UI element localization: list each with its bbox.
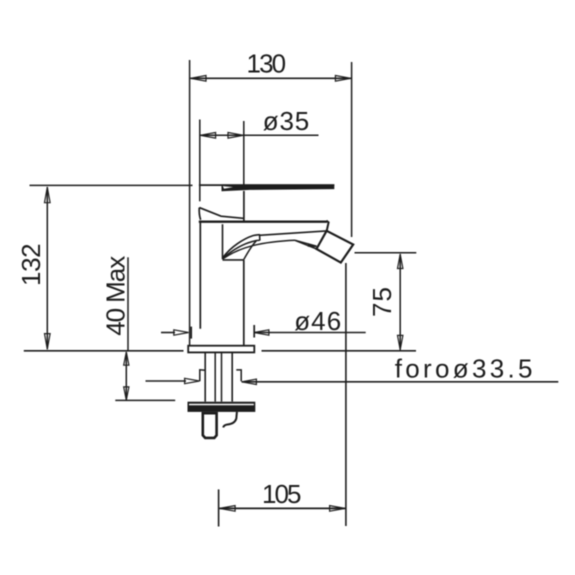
dim ø35 extension line right — [243, 121, 245, 185]
svg-text:foroø33.5: foroø33.5 — [395, 353, 533, 383]
faucet spout tip corner — [326, 221, 328, 231]
dim 105 dimension line — [219, 507, 345, 509]
svg-text:75: 75 — [367, 287, 397, 317]
dim 130 extension line left — [189, 60, 191, 352]
dim 132 arrow down — [45, 334, 51, 350]
faucet body left edge — [199, 222, 201, 329]
dim 132 dimension line — [46, 187, 48, 350]
svg-text:132: 132 — [16, 243, 46, 286]
svg-text:ø35: ø35 — [263, 106, 310, 136]
faucet handle wedge left edge — [199, 208, 200, 220]
dim 130 arrow left — [191, 76, 207, 82]
faucet spout front arc from body corner — [244, 241, 257, 260]
dim ø46 extension stub right — [253, 325, 255, 338]
washer white stripe — [189, 404, 254, 406]
dim 75 dimension line — [399, 254, 401, 350]
dim 75 arrow up — [398, 254, 403, 268]
dim 105 extension line right (from aerator) — [345, 263, 347, 526]
dim ø35 dimension line with leader — [200, 134, 319, 136]
faucet body inner corner horizontal — [223, 259, 244, 261]
dim 105 arrow left — [220, 506, 236, 512]
dim 40 Max underline leader — [127, 257, 129, 350]
dim 130 arrow right — [335, 76, 351, 82]
dim 130 extension line right — [351, 62, 353, 237]
mounting surface line (132 bottom / 40 top extension) left — [24, 350, 184, 352]
svg-text:40 Max: 40 Max — [101, 256, 131, 336]
shank outer left line — [204, 353, 206, 402]
faucet spout chord line to pinch — [223, 240, 295, 259]
pipe break squiggle — [223, 412, 237, 428]
shank inner pipe line right — [221, 353, 223, 402]
dim ø35 extension line left — [199, 120, 201, 202]
aerator tilted rectangle — [317, 231, 354, 263]
dim 75 top extension line — [355, 252, 417, 254]
dim 40 Max dimension line — [125, 352, 127, 400]
mounting surface line right segment — [262, 350, 417, 352]
dim 40 Max bottom extension line — [115, 399, 175, 401]
dim 132 arrow up — [45, 187, 51, 203]
faucet spout underside end tick — [259, 234, 261, 240]
dim 75 arrow down — [398, 335, 403, 349]
svg-text:ø46: ø46 — [294, 306, 341, 336]
dim 40 Max arrow up — [124, 352, 129, 365]
shank outer right line — [231, 353, 233, 402]
faucet spout pinch lower arm to aerator corner — [295, 240, 316, 249]
dim foro ø33.5 line left with arrow — [146, 380, 187, 382]
dim 130 dimension line — [190, 77, 351, 79]
faucet spout underside upper curve — [223, 235, 260, 258]
faucet lever top line — [199, 184, 334, 186]
faucet lever bar highlight notch — [223, 186, 233, 189]
threaded tip — [203, 413, 217, 438]
dim ø46 dimension line left with arrow — [161, 332, 175, 334]
dim 132 extension line top — [30, 184, 193, 186]
faucet spout pinch triangle — [308, 243, 318, 247]
faucet body inner corner vertical — [222, 224, 224, 259]
svg-text:105: 105 — [262, 479, 302, 509]
dim 40 Max arrow down — [124, 387, 129, 400]
faucet body right edge — [243, 260, 245, 346]
dim ø46 extension stub left — [190, 327, 192, 339]
faucet spout pinch upper arm — [295, 240, 316, 246]
dim foro ø33.5 line right with arrow — [242, 381, 559, 383]
svg-text:130: 130 — [247, 48, 287, 78]
faucet lever handle bar — [222, 184, 335, 191]
dim foro ø33.5 right jog tick — [236, 370, 241, 381]
base plate — [188, 346, 254, 353]
dim 105 arrow right — [330, 506, 346, 512]
faucet handle wedge top edge — [199, 208, 243, 219]
faucet cartridge right edge — [243, 191, 245, 221]
dim 105 extension line left — [218, 489, 220, 526]
faucet spout underside middle curve — [223, 240, 260, 258]
shank inner pipe line left — [214, 353, 216, 402]
faucet body top / spout top line — [199, 220, 327, 222]
faucet spout top edge to aerator — [259, 231, 326, 235]
washer nut block — [188, 402, 256, 412]
dim foro ø33.5 left jog tick — [200, 370, 206, 382]
dim ø35 arrow right — [228, 133, 244, 139]
dim ø35 arrow left — [200, 133, 216, 139]
dim ø46 dimension line right with arrow and leader — [254, 332, 366, 334]
